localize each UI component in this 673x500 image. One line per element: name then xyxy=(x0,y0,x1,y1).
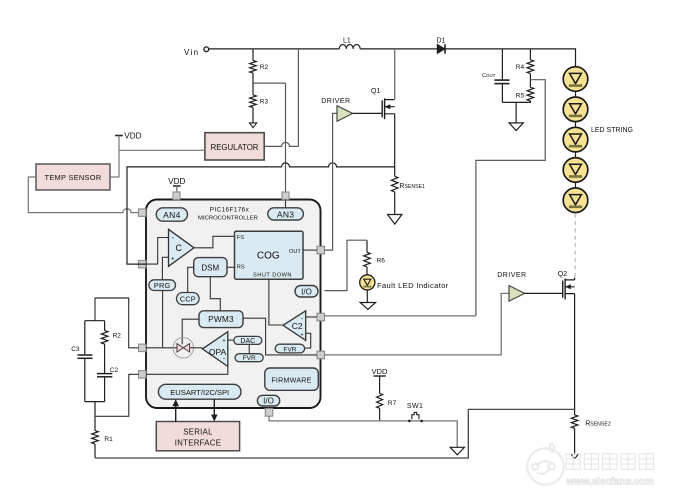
label COUT xyxy=(482,73,496,79)
label R3 xyxy=(260,99,269,106)
wire RSENSE1 to ground xyxy=(394,192,396,215)
svg-text:R7: R7 xyxy=(388,400,397,407)
resistor R2 (comp) xyxy=(101,331,108,344)
wire pin3 net to compensation top xyxy=(95,298,139,348)
wire current sense feedback with hops xyxy=(127,163,395,264)
ground below COUT xyxy=(509,123,523,131)
svg-text:OUT: OUT xyxy=(289,249,301,255)
label DRIVER1 xyxy=(321,98,350,105)
resistor R6 xyxy=(364,252,371,266)
svg-text:DSM: DSM xyxy=(201,263,219,272)
label SERIAL xyxy=(183,427,213,436)
switch SW1 xyxy=(408,412,423,422)
svg-text:AN3: AN3 xyxy=(277,209,294,219)
pin AN4 (micro left) xyxy=(139,209,147,217)
svg-text:INTERFACE: INTERFACE xyxy=(175,438,221,447)
label FS xyxy=(237,235,244,241)
wire compensation to R1 xyxy=(94,402,96,431)
svg-text:Q1: Q1 xyxy=(371,88,380,95)
wire temp sensor to AN4 pin with hop xyxy=(28,177,138,213)
label AN3 xyxy=(277,209,294,219)
op-amp OPA xyxy=(202,332,227,367)
wire pin2 to C1 inverting input xyxy=(146,238,169,265)
wire pin3 to modulator xyxy=(146,347,177,349)
fault LED indicator xyxy=(360,275,375,290)
svg-text:www.elecfans.com: www.elecfans.com xyxy=(566,477,655,488)
wire LED string spine xyxy=(575,67,577,213)
label RSENSE1 xyxy=(399,183,425,190)
wire R1 to ground rail xyxy=(94,444,96,458)
svg-text:+: + xyxy=(300,332,303,338)
transistor Q2 xyxy=(563,279,575,300)
inductor L1 xyxy=(339,44,360,48)
label Vin xyxy=(184,48,199,57)
svg-text:Q2: Q2 xyxy=(558,271,567,278)
wire PRG to C1 plus input xyxy=(162,257,168,280)
svg-text:L1: L1 xyxy=(343,37,351,44)
svg-text:C2: C2 xyxy=(292,321,303,331)
resistor R2 xyxy=(250,60,257,73)
svg-text:COG: COG xyxy=(257,250,280,261)
transistor Q1 xyxy=(382,98,395,119)
wire C2comp bottom lead xyxy=(104,377,106,401)
label RS xyxy=(237,265,245,271)
svg-text:DRIVER: DRIVER xyxy=(497,272,526,279)
svg-text:R6: R6 xyxy=(377,257,386,264)
wire fault LED to ground xyxy=(366,290,368,303)
label R1 xyxy=(104,436,113,443)
svg-text:+: + xyxy=(222,339,225,345)
wire DSM to CCP xyxy=(188,267,194,292)
label DSM xyxy=(201,263,219,272)
wire PWM3 to modulator xyxy=(182,319,199,344)
pin OPA feedback (micro left) xyxy=(139,371,147,379)
svg-text:SW1: SW1 xyxy=(407,403,423,410)
wire rail to COUT xyxy=(501,49,503,80)
wire pin4 net to compensation bottom xyxy=(95,374,139,416)
label C2 xyxy=(292,321,303,331)
block I/O bottom xyxy=(257,395,279,406)
wire compensation box top xyxy=(85,320,105,322)
label L1 xyxy=(343,37,351,44)
pin AN3 (micro top) xyxy=(282,192,289,200)
label TEMP SENSOR xyxy=(45,173,102,182)
wire VDD node vertical xyxy=(118,136,120,178)
power VDD symbol top-left xyxy=(115,131,141,140)
capacitor COUT xyxy=(494,80,509,102)
wire R6 to fault LED xyxy=(366,267,368,275)
block COG xyxy=(235,231,304,279)
wire C1 out to COG FS xyxy=(194,236,235,248)
label OUT xyxy=(289,249,301,255)
power VDD symbol above R7 xyxy=(371,367,388,376)
label EUSART/I2C/SPI xyxy=(170,388,229,397)
watermark bottom-right text xyxy=(566,453,655,488)
pin VDD (micro top) xyxy=(173,192,180,200)
capacitor C2 (comp) xyxy=(97,374,112,377)
wire Vin to regulator input riser xyxy=(297,49,299,146)
label R2 xyxy=(260,64,269,71)
pin I/O (micro bottom) xyxy=(265,408,272,416)
label PIC16F176x xyxy=(210,207,250,214)
svg-text:Fault LED Indicator: Fault LED Indicator xyxy=(377,281,449,290)
wire ground rail xyxy=(95,409,575,458)
arrow serial to EUSART xyxy=(172,399,179,421)
wire VDD to R7 xyxy=(379,376,381,393)
svg-text:R2: R2 xyxy=(113,333,122,340)
wire DRIVER1 to Q1 gate xyxy=(353,112,383,114)
wire I/O to SW1 rail xyxy=(269,416,457,447)
svg-text:PRG: PRG xyxy=(154,281,171,290)
label PRG xyxy=(154,281,171,290)
svg-text:CCP: CCP xyxy=(180,294,196,303)
wire Vin to L1 xyxy=(209,48,340,50)
power VDD symbol above micro xyxy=(168,177,185,192)
label AN4 xyxy=(163,210,180,220)
wire rail to R4 xyxy=(529,49,531,60)
label MICROCONTROLLER xyxy=(198,216,258,222)
wire Q1 source to RSENSE1 xyxy=(394,114,396,177)
wire FVR2 to C2 plus xyxy=(305,333,311,348)
resistor RSENSE1 xyxy=(391,176,398,192)
resistor R3 xyxy=(250,95,257,108)
svg-text:D1: D1 xyxy=(437,38,446,45)
wire DAC to FVR1 xyxy=(248,344,250,353)
ground below RSENSE1 xyxy=(388,215,402,225)
svg-text:R1: R1 xyxy=(104,436,113,443)
wire R2comp to C2comp xyxy=(104,344,106,373)
capacitor C3 xyxy=(78,355,93,358)
serial interface block xyxy=(156,422,239,451)
pin COG OUT (micro right) xyxy=(317,246,325,254)
wire RSENSE2 to ground xyxy=(574,428,576,454)
ground below fault LED xyxy=(360,303,375,310)
wire COG shutdown to C2 output xyxy=(269,279,283,325)
label R4 xyxy=(516,64,525,71)
label R2 comp xyxy=(113,333,122,340)
wire regulator input with hop xyxy=(264,142,298,146)
wire temp sensor to VDD xyxy=(110,176,119,178)
svg-text:RSENSE2: RSENSE2 xyxy=(585,420,611,427)
label SW1 xyxy=(407,403,423,410)
wire C3 bottom lead xyxy=(84,359,86,402)
label OPA xyxy=(209,347,227,357)
svg-text:C3: C3 xyxy=(71,346,80,353)
svg-text:DRIVER: DRIVER xyxy=(321,98,350,105)
wire C2 net horizontal xyxy=(325,315,476,317)
label RSENSE2 xyxy=(585,420,611,427)
wire R7 to I/O rail xyxy=(379,408,381,421)
wire modulator to OPA output xyxy=(190,347,203,349)
wire DRIVER2 to Q2 gate xyxy=(525,292,563,294)
pin C1 inverting input (micro left) xyxy=(139,260,147,268)
label FIRMWARE xyxy=(271,376,311,384)
svg-text:R2: R2 xyxy=(260,64,269,71)
block CCP xyxy=(177,293,200,305)
wire Q2 source to RSENSE2 xyxy=(574,294,576,415)
block EUSART/I2C/SPI xyxy=(158,384,241,399)
LED string diodes xyxy=(563,67,588,213)
label FVR1 text xyxy=(243,355,256,362)
driver DRIVER2 xyxy=(509,286,525,302)
wire COG OUT to pin xyxy=(303,249,317,251)
svg-text:REGULATOR: REGULATOR xyxy=(211,143,259,152)
wire R2comp top lead xyxy=(104,321,106,331)
svg-text:C2: C2 xyxy=(110,367,119,374)
svg-text:LED STRING: LED STRING xyxy=(591,127,633,134)
wire Vin divider drop xyxy=(252,49,254,61)
wire R2 to R3 xyxy=(252,73,254,95)
block PWM3 xyxy=(199,311,243,328)
block FVR2 xyxy=(275,344,304,353)
resistor R5 xyxy=(527,87,534,101)
regulator block xyxy=(205,133,264,160)
wire AN3 pin to AN3 oval xyxy=(285,200,287,208)
svg-text:DAC: DAC xyxy=(240,338,255,345)
wire divider tap to AN3 column xyxy=(253,82,286,84)
svg-text:TEMP SENSOR: TEMP SENSOR xyxy=(45,173,102,182)
wire compensation box bottom xyxy=(85,401,105,403)
pin OPA/FB (micro left) xyxy=(139,344,147,352)
resistor RSENSE2 xyxy=(571,415,578,428)
label FVR2 text xyxy=(283,346,296,353)
wire VDD to regulator output xyxy=(119,149,205,151)
svg-text:FVR: FVR xyxy=(243,355,256,362)
label DRIVER2 xyxy=(497,272,526,279)
svg-text:I/O: I/O xyxy=(301,287,312,296)
pin C2 input (micro right) xyxy=(317,313,325,321)
svg-text:EUSART/I2C/SPI: EUSART/I2C/SPI xyxy=(170,388,229,397)
svg-text:RS: RS xyxy=(237,265,245,271)
label C2 comp xyxy=(110,367,119,374)
label SHUT DOWN xyxy=(253,273,292,279)
OPA minus marker xyxy=(223,355,226,362)
driver DRIVER1 xyxy=(337,106,353,122)
label Fault LED Indicator xyxy=(377,281,449,290)
op-amp C1 (comparator) xyxy=(169,229,195,266)
resistor R1 xyxy=(92,431,99,444)
C1 plus marker xyxy=(171,257,175,263)
label I/O right xyxy=(301,287,312,296)
svg-text:+: + xyxy=(171,257,175,263)
wire I/O to R6 xyxy=(325,240,368,290)
label Q2 xyxy=(558,271,567,278)
label PWM3 xyxy=(208,314,234,324)
op-amp C2 (comparator) xyxy=(283,311,306,341)
svg-text:FIRMWARE: FIRMWARE xyxy=(271,376,311,384)
svg-text:R3: R3 xyxy=(260,99,269,106)
wire R3 to ground xyxy=(252,108,254,123)
arrow EUSART to serial xyxy=(211,399,218,421)
wire L1 to D1 to LED string top xyxy=(360,49,575,67)
wire C3 top lead xyxy=(84,321,86,355)
block I/O right xyxy=(295,286,318,298)
block FVR1 xyxy=(235,354,263,362)
wire PWM3 pin to DRIVER2 xyxy=(325,293,510,355)
wire COUT bottom to ground xyxy=(515,102,517,123)
label DAC xyxy=(240,338,255,345)
node Vin terminal xyxy=(204,47,209,52)
wire DAC to OPA xyxy=(228,339,234,341)
wire R4 to R5 xyxy=(529,74,531,88)
svg-text:R4: R4 xyxy=(516,64,525,71)
block AN4 xyxy=(156,208,187,221)
pin PWM3 out (micro right) xyxy=(317,351,325,359)
wire PWM3 to pin (to DRIVER2) xyxy=(243,318,317,355)
resistor R4 xyxy=(527,60,534,74)
block AN3 xyxy=(268,208,304,220)
wire OPA feedback to pin4 xyxy=(146,366,228,374)
label R7 xyxy=(388,400,397,407)
watermark bottom-right logo xyxy=(527,444,563,485)
wire Q1 drain to rail xyxy=(394,49,396,100)
wire R6 top lead xyxy=(366,240,368,252)
label C3 xyxy=(71,346,80,353)
svg-text:RSENSE1: RSENSE1 xyxy=(399,183,425,190)
microcontroller PIC16F176x body xyxy=(146,200,321,409)
temp sensor block xyxy=(36,164,110,190)
label CCP xyxy=(180,294,196,303)
svg-text:C: C xyxy=(175,243,182,253)
block FIRMWARE xyxy=(265,368,319,390)
block DSM xyxy=(194,258,227,277)
svg-text:VDD: VDD xyxy=(168,177,185,186)
wire DSM to COG RS xyxy=(227,266,235,268)
wire PRG to mux net xyxy=(162,291,164,348)
wire R4/R5 tap to C2 pin xyxy=(476,80,545,316)
label LED STRING xyxy=(591,127,633,134)
label I/O bottom xyxy=(263,397,274,406)
wire DSM to PWM3 xyxy=(210,277,220,311)
label REGULATOR xyxy=(211,143,259,152)
OPA plus marker xyxy=(222,339,225,345)
label R6 xyxy=(377,257,386,264)
label C1 xyxy=(175,243,182,253)
svg-text:FS: FS xyxy=(237,235,244,241)
label INTERFACE xyxy=(175,438,221,447)
diode D1 xyxy=(437,44,445,53)
wire COG OUT to DRIVER1 xyxy=(325,113,338,250)
svg-text:SERIAL: SERIAL xyxy=(183,427,213,436)
wire divider to AN3 pin xyxy=(285,83,287,192)
svg-text:VDD: VDD xyxy=(371,367,388,376)
svg-text:VDD: VDD xyxy=(124,131,141,140)
svg-text:I/O: I/O xyxy=(263,397,274,406)
wire dashed LED string to Q2 xyxy=(574,214,576,278)
block DAC xyxy=(234,336,262,344)
ground below SW1 xyxy=(450,447,464,455)
C2 minus marker xyxy=(301,316,304,323)
label D1 xyxy=(437,38,446,45)
svg-text:R5: R5 xyxy=(516,92,525,99)
ground below R3 xyxy=(250,123,257,128)
label Q1 xyxy=(371,88,380,95)
wire Q2 drain stub xyxy=(574,278,576,280)
svg-text:MICROCONTROLLER: MICROCONTROLLER xyxy=(198,216,258,222)
wire R5 to COUT bottom xyxy=(502,101,530,103)
modulator circle xyxy=(173,338,193,358)
label COG xyxy=(257,250,280,261)
svg-text:Vin: Vin xyxy=(184,48,199,57)
block PRG xyxy=(149,280,176,291)
wire C2 inverting to pin xyxy=(306,316,317,318)
svg-text:PIC16F176x: PIC16F176x xyxy=(210,207,250,214)
label R5 xyxy=(516,92,525,99)
svg-text:AN4: AN4 xyxy=(163,210,180,220)
C1 minus marker xyxy=(171,233,174,242)
C2 plus marker xyxy=(300,332,303,338)
resistor R7 xyxy=(377,393,383,408)
ground below RSENSE2 xyxy=(571,454,578,459)
svg-text:PWM3: PWM3 xyxy=(208,314,234,324)
svg-text:FVR: FVR xyxy=(283,346,296,353)
modulator bowtie xyxy=(177,344,190,352)
svg-text:SHUT DOWN: SHUT DOWN xyxy=(253,273,292,279)
